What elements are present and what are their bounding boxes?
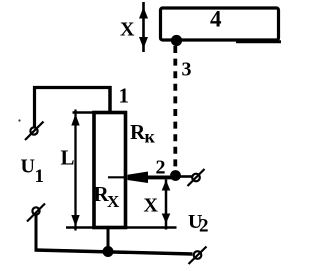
wire: wiper to right terminal — [180, 175, 193, 178]
terminal (clamp) bottom-right, U2 - — [189, 247, 207, 265]
svg-text:L: L — [61, 146, 75, 170]
speck (scan artifact) — [18, 119, 20, 121]
extension line bottom (for L and X) — [66, 226, 177, 229]
junction dot on bottom rail — [103, 246, 114, 257]
junction dot on wiper (node with wire 3) — [170, 170, 181, 181]
svg-text:X: X — [120, 19, 135, 41]
svg-text:к: к — [145, 127, 156, 147]
wiper (slider contact, element 2) — [108, 172, 173, 184]
svg-text:X: X — [144, 195, 159, 217]
dimension arrow X (position of wiper) — [162, 180, 171, 230]
dashed link wire 3 — [173, 46, 177, 172]
node junction dot under box 4 — [171, 35, 182, 46]
label Rk (upper part resistance) — [130, 120, 156, 147]
svg-text:1: 1 — [119, 84, 130, 108]
terminal (clamp) lower-left, U1 - — [27, 204, 45, 222]
wire: lower-left terminal down to bottom rail — [35, 215, 38, 251]
svg-text:2: 2 — [156, 157, 166, 179]
dimension arrow X (top, height of box 4) — [139, 2, 148, 52]
wire: rheostat bottom stub to rail — [107, 228, 110, 252]
svg-text:1: 1 — [35, 166, 45, 187]
terminal (clamp) wiper output, U2 + — [188, 169, 205, 186]
svg-text:2: 2 — [199, 216, 209, 237]
label U1 — [21, 156, 45, 188]
wire: top-left feed (from terminal up and right to node 1) — [33, 86, 112, 128]
dimension arrow L (full length of winding) — [71, 110, 79, 231]
block 4 (indicator box) — [161, 8, 282, 42]
rheostat body R (element 1) — [94, 113, 126, 228]
extension line top (for L) — [73, 111, 95, 114]
label Rx (lower part resistance) — [94, 182, 121, 211]
svg-text:X: X — [107, 192, 120, 211]
svg-text:U: U — [21, 156, 35, 178]
wire: bottom rail — [35, 250, 193, 254]
svg-text:4: 4 — [210, 7, 222, 32]
label U2 — [188, 211, 209, 237]
svg-text:3: 3 — [182, 59, 192, 81]
terminal (clamp) upper-left, U1 + — [25, 122, 44, 141]
